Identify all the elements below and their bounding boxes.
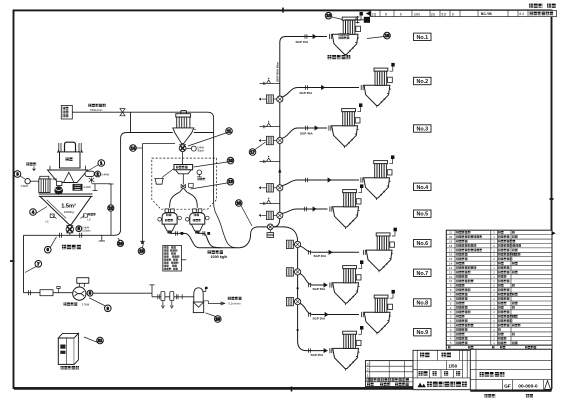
svg-text:150L/min: 150L/min [90,108,103,112]
control cabinet [58,333,78,338]
purge inlet 2 [260,126,280,128]
receiving hopper body [39,194,93,196]
svg-text:(3): (3) [431,12,435,16]
rotary valve under hopper [66,225,73,227]
svg-text:13: 13 [449,266,453,270]
manifold flow arrow [278,168,281,172]
flexible container side posts [59,143,81,153]
air line label [88,104,105,112]
svg-text:16: 16 [237,201,242,206]
No.1 vent fitting [345,16,364,24]
svg-text:19: 19 [326,13,331,18]
parts list header row [446,345,552,349]
svg-text:1.5m³: 1.5m³ [61,203,76,210]
vent drop from loop [214,202,236,248]
blower discharge [93,292,152,294]
svg-text:20: 20 [449,235,453,239]
drawing title [480,372,505,377]
svg-text:LS: LS [46,221,49,224]
company logo [418,383,426,388]
centering tick top [282,8,284,13]
drain bucket [154,179,164,185]
svg-text:SGP 40A: SGP 40A [314,254,327,258]
flexible container bag [65,142,76,152]
svg-text:0.4kW: 0.4kW [50,178,58,181]
air drop to loop [130,112,132,132]
svg-text:No.7: No.7 [416,271,428,277]
branch pipe to No.2 [282,88,359,97]
No.1 hopper text [339,33,350,39]
pipe support [99,235,105,241]
hopper vent line [109,184,114,235]
approval stamps [419,353,461,376]
svg-text:6: 6 [385,12,387,16]
sheet note above strip [529,4,533,8]
svg-text:1000 kg/h: 1000 kg/h [211,255,229,259]
revision strip left arrow [366,11,371,16]
svg-text:SGP 65A: SGP 65A [300,91,313,95]
dashed enclosure [152,158,217,209]
balloon 2 [95,171,101,177]
balloon 3 [20,176,26,180]
drawing number [504,384,538,390]
branch pipe to No.7 [300,274,327,285]
svg-text:14: 14 [449,262,453,266]
svg-text:No.9: No.9 [416,330,428,336]
svg-text:1: 1 [367,374,369,378]
relief valve [57,287,60,293]
svg-text:No.5: No.5 [416,212,428,218]
balloon 12 [108,205,114,211]
balloon 13 [191,183,228,189]
diverter valve to No.7 [286,268,293,276]
svg-text:No.1: No.1 [416,35,428,41]
svg-text:17: 17 [250,150,255,155]
centering tick left [10,260,15,262]
destination label box No.4 [414,183,432,190]
service hopper name [328,55,351,59]
magnet note [26,163,36,166]
diverter valve to No.8 [286,297,293,305]
blower motor [77,278,89,284]
cyclone body [173,128,194,144]
svg-text:3: 3 [367,363,369,367]
line junction diverter [267,224,273,230]
destination label box No.1 [414,33,432,40]
destination label box No.2 [414,77,432,84]
dust fan [25,179,30,184]
diverter valve to No.6 [286,240,293,248]
dryer outlet [204,301,225,305]
weigh hopper [174,165,193,170]
silencer [40,290,53,296]
svg-text:0.2m³/min: 0.2m³/min [229,302,241,306]
balloon 10 [118,238,120,241]
air prep riser [149,285,154,297]
receiver hopper No.9 [330,326,364,371]
balloon 20 [206,313,216,317]
svg-text:18: 18 [228,158,233,163]
balloon 16 [241,206,252,227]
bag breaker [64,172,75,182]
svg-text:SGP 40A: SGP 40A [300,132,313,136]
svg-text:20: 20 [216,317,221,322]
svg-text:1/50: 1/50 [449,364,458,369]
branch pipe to No.6 [300,246,359,252]
manifold size label (vertical) [275,62,279,82]
left drop pipe [23,235,25,292]
blow tank A cone [164,224,176,231]
branch pipe to No.5 [282,209,327,213]
svg-text:No.3: No.3 [416,127,428,133]
blow tank A top valves [165,209,169,213]
svg-text:6: 6 [452,12,454,16]
title block right [470,349,551,390]
centering tick bottom [291,387,293,392]
destination label box No.8 [414,299,432,306]
chute to tank A [170,192,180,207]
lower manifold [297,242,299,342]
balloon 6 [50,237,57,248]
svg-text:SGP 30A: SGP 30A [313,317,326,321]
svg-text:14: 14 [131,146,136,151]
blow tank B top valves [193,209,197,213]
diverter valve to No.5 [266,211,273,219]
branch pipe to No.8 [300,304,359,315]
cyclone filter [177,117,190,128]
diverter valve to No.3 [266,136,273,144]
balloon 5 [76,226,82,232]
company name [427,382,467,387]
destination label box No.3 [414,125,432,132]
balloon 7 [25,266,37,272]
title block centre [413,350,474,389]
bag filter [40,176,49,179]
revision strip table [370,10,557,16]
svg-text:16: 16 [449,253,453,257]
cyclone vent cap [181,110,187,113]
chute to tank B [187,192,197,207]
svg-text:18: 18 [449,244,453,248]
third angle symbol [545,381,551,390]
branch pipe to No.3 [282,128,327,138]
blow tank A body [162,213,177,225]
blow tank B gauges [186,218,190,222]
svg-text:100rpm: 100rpm [82,229,90,232]
balloon 11 [188,133,226,146]
level switch R [81,214,88,219]
diverter valve to No.2 [266,95,273,103]
drop to lower manifold [273,227,297,242]
purge inlet 4 [260,203,280,205]
air filter 1 [161,292,165,301]
blow tank label [208,250,229,259]
load cell [197,170,202,175]
parts list table [446,230,552,345]
blow tank B cone [191,224,203,231]
two-way chute [179,188,187,192]
dump hopper [50,166,86,170]
balloon 1 [89,165,99,171]
receiver hopper No.6 [363,228,397,273]
destination label box No.7 [414,269,432,276]
svg-text:No.2: No.2 [416,79,428,85]
compressor air line [72,112,213,202]
svg-text:00-000-0: 00-000-0 [518,384,538,390]
balloon 17 [255,142,266,150]
svg-text:1.5kW: 1.5kW [21,184,29,188]
svg-text:LS: LS [88,219,91,222]
svg-text:(30): (30) [414,12,420,16]
balloon 9 [89,298,106,306]
level switch L [50,214,56,219]
roots blower [73,287,86,300]
svg-text:21: 21 [98,338,103,343]
cyclone rotary valve [179,144,186,146]
svg-text:30rpm: 30rpm [197,150,204,153]
receiver hopper No.2 [361,63,394,108]
svg-text:1000kg: 1000kg [64,210,74,214]
branch pipe to No.4 [282,180,359,186]
svg-text:21: 21 [449,231,453,235]
revision history table [366,361,414,387]
svg-text:SGP 80A 60m: SGP 80A 60m [275,62,279,82]
sheet notes below border [484,394,533,397]
svg-text:0.4kW: 0.4kW [101,173,109,177]
centering tick right [550,198,554,200]
balloon 4 [36,207,47,214]
hopper name [62,245,81,249]
conveying line loop [24,133,214,236]
vibrator motor [85,171,94,176]
slide gate [73,184,83,191]
hopper vent pipe [92,184,112,191]
receiver hopper No.5 [330,184,364,229]
receiver hopper No.8 [361,290,395,335]
svg-text:12: 12 [109,206,114,211]
branch flanges [306,85,308,89]
balloon 14 [136,147,143,149]
svg-text:2: 2 [367,368,369,372]
svg-text:SGP 30A: SGP 30A [313,287,326,291]
svg-text:10: 10 [118,241,123,246]
balloon 21 [84,337,97,342]
branch pipe to No.9 [298,341,328,351]
svg-text:No.6: No.6 [416,241,428,247]
discharge valve [182,174,184,185]
blow tank A gauges [158,218,162,222]
destination label box No.6 [414,240,432,247]
svg-text:GF: GF [504,384,511,390]
svg-text:b: b [400,12,402,16]
svg-text:15: 15 [139,249,144,254]
svg-text:13: 13 [228,179,233,184]
svg-text:6 4: 6 4 [520,12,525,16]
svg-text:SGP 70A: SGP 70A [296,40,309,44]
blow tank B body [190,213,205,225]
blower suction line [24,290,41,295]
svg-text:11: 11 [449,275,452,279]
balloon 8 [87,290,93,296]
svg-text:No.4: No.4 [416,185,428,191]
svg-text:5.8: 5.8 [442,12,447,16]
receiver hopper No.7 [330,260,364,305]
main line rise [240,227,268,248]
svg-text:17: 17 [449,248,453,252]
valves on bottom line [60,233,82,238]
balloon 14 line [140,144,175,242]
bag dump box [60,152,81,168]
tank A outlet [170,233,240,247]
svg-text:BC-YB: BC-YB [481,12,492,16]
svg-text:SGP 25A: SGP 25A [311,353,324,357]
air filter 2 [170,292,174,301]
compressor source box [61,105,72,119]
balloon 19 [332,17,343,20]
balloon 15 [142,244,143,248]
svg-text:11: 11 [227,129,232,134]
branch pipe to No.1 [280,37,327,48]
svg-text:16: 16 [385,33,390,38]
air receiver dryer [194,288,203,302]
svg-text:0.2kW: 0.2kW [84,186,92,189]
weigher feed [182,152,184,165]
tank B outlet [197,233,220,247]
diverter valve to No.4 [266,184,273,192]
hopper vent valve [89,177,94,183]
tank spec table [163,245,182,271]
cyclone filter lid [176,114,191,117]
purge inlet 1 [260,82,280,84]
screw feeder [57,181,62,185]
svg-text:3.7kW: 3.7kW [82,303,90,307]
receiver hopper No.1 [329,12,363,57]
balloon 18 [194,162,228,167]
svg-text:19: 19 [449,239,453,243]
receiver hopper No.4 [361,155,395,200]
receiver hopper No.3 [329,103,363,148]
riser to upper manifold [273,47,280,227]
thick base under title block [470,390,551,392]
svg-text:12: 12 [449,270,453,274]
destination label box No.9 [414,329,432,336]
destination label box No.5 [414,210,432,217]
valve on air line [120,109,125,116]
svg-text:15: 15 [449,257,453,261]
svg-text:10: 10 [449,279,453,283]
purge inlet 3 [260,161,280,163]
svg-text:(1): (1) [372,12,376,16]
svg-text:No.8: No.8 [416,301,428,307]
balloon 17b [367,37,384,39]
